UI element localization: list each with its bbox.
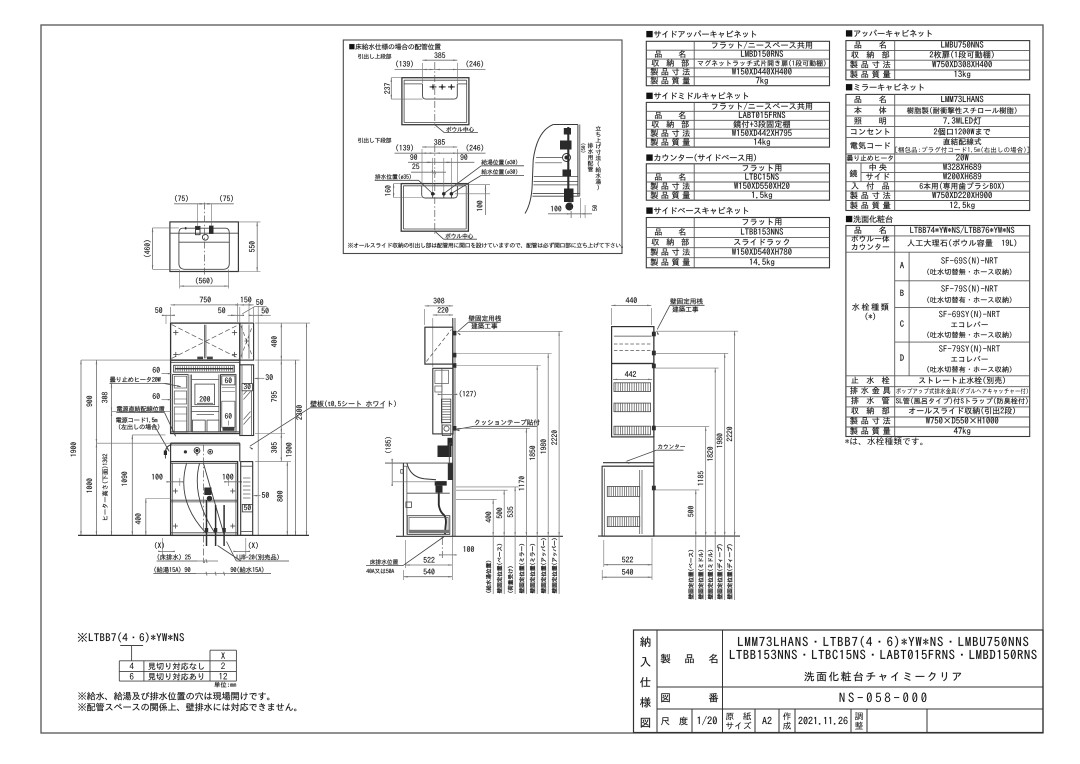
title block 尺度 1/20 [661, 717, 688, 726]
internal pipe curves [184, 464, 206, 533]
middle mirror cabinet side [433, 368, 453, 434]
legend unit note 単位:mm [214, 682, 236, 688]
table サイドアッパーキャビネット [646, 41, 829, 85]
left dim chain 900/1000 [96, 442, 170, 444]
bowl centerline front [203, 445, 205, 564]
section view vertical label 立ち上げ寸法(給水湯) [596, 126, 601, 131]
title block 原紙サイズ A2 [726, 712, 751, 720]
title block product codes line1 [738, 636, 1028, 647]
table サイドミドルキャビネット [646, 102, 829, 147]
lower centerline [434, 145, 436, 235]
section view vertical label 排水用配管 [588, 143, 593, 148]
dim (139)/(246) lower [395, 152, 486, 154]
right dim 2300 [306, 323, 308, 535]
lower cabinet plan rect [401, 184, 468, 232]
middle wall lines [452, 318, 454, 536]
middle dim (185) [391, 459, 393, 486]
table header アッパーキャビネット [846, 30, 932, 37]
label 電源コード1.5m(左出しの場合) [116, 417, 157, 423]
table header 洗面化粧台 [846, 215, 893, 223]
third bottom vertical labels [688, 550, 693, 599]
third dim 442 inside [613, 378, 652, 380]
counter band [171, 442, 240, 444]
faucet hole crosses [430, 86, 437, 88]
section view small dim 50 wall [581, 144, 586, 153]
dims (X) below floor [155, 542, 164, 549]
leader 50 right [262, 492, 269, 498]
table ミラーキャビネット [846, 94, 1030, 210]
label 壁固定用桟 建築工事 third [670, 298, 702, 304]
boxed 50 on side base [242, 504, 252, 512]
label 給湯15A 90 / 90 給水15A [154, 567, 190, 573]
dim 160 [394, 183, 402, 185]
title block product name 洗面化粧台チャイミークリア [804, 671, 961, 681]
note LTBB7 model legend [78, 633, 184, 643]
label 壁固定用桟 建築工事 middle [469, 315, 501, 321]
upper cabinet plan rect [402, 78, 469, 125]
section view shelf lines [536, 157, 562, 159]
plan view bowl back line [179, 241, 229, 243]
third wall line [653, 327, 655, 536]
section view cabinet curve [525, 125, 553, 214]
label 引出し上段部 [358, 54, 391, 59]
label 引出し下段部 [358, 138, 391, 143]
upper cabinet corner marks [173, 332, 178, 334]
label カウンター third [658, 444, 685, 449]
third wall brackets [652, 332, 656, 337]
middle mirror bottom box [442, 425, 451, 436]
top dim row 750/150/50 [170, 307, 172, 322]
side upper cabinet front [240, 323, 254, 360]
mirror cabinet outline [171, 360, 240, 433]
label LUB-20 別売品 [237, 554, 279, 560]
third right dim chain [656, 489, 699, 491]
middle mirror louver strip [441, 399, 450, 423]
dim 385 upper [422, 63, 424, 83]
left dim chain 1090 [132, 434, 165, 436]
title block drawing number NS-058-000 [840, 693, 927, 703]
middle counter and bowl profile [385, 462, 453, 464]
plan view dim 550 [238, 221, 260, 223]
dim 25 lower [411, 171, 446, 173]
middle wall rail brackets upper [453, 331, 457, 336]
piping box bottom note [348, 242, 623, 247]
middle dim 220 [432, 318, 434, 367]
base cabinet drawer divider [171, 499, 238, 501]
label ボウル中心 upper [435, 125, 444, 133]
title block 調整 [855, 713, 863, 721]
third base cabinet side [602, 466, 654, 536]
label ボウル中心 lower [435, 231, 444, 239]
section view wall lines [577, 125, 579, 197]
plan view dim (460) [153, 227, 179, 229]
label 曇り止めヒータ20W [110, 377, 161, 383]
middle drawer box [407, 516, 450, 535]
table アッパーキャビネット [846, 41, 1030, 80]
table header サイドミドルキャビネット [646, 92, 748, 99]
third slide rack comb strips [607, 487, 639, 497]
labels 60 left with leaders [153, 367, 160, 373]
plan view bowl outline [179, 228, 229, 269]
title block 作成 2021.11.26 [783, 712, 791, 720]
table header カウンター(サイドベース用) [646, 154, 756, 162]
title block label 製品名 [661, 654, 671, 663]
label 電源直結配線位置 [117, 406, 165, 412]
table 洗面化粧台 [846, 226, 1030, 437]
label 壁板 t0.5シート ホワイト [310, 400, 396, 406]
title block outline [634, 630, 1044, 733]
plan view backguard line [170, 232, 239, 234]
right dim chain 400/795/305 [255, 322, 310, 324]
label 排水位置(ø35) [375, 174, 411, 179]
table カウンター サイドベース用 [646, 164, 829, 200]
base cabinet outline [171, 462, 238, 536]
drawer corner marks [173, 490, 178, 492]
side middle mirror slashes [244, 387, 251, 395]
upper cabinet front [171, 323, 240, 360]
third dim 440 [610, 308, 612, 325]
piping box title 床給水仕様の場合の配管位置 [349, 43, 441, 49]
title block row lines [657, 686, 1043, 688]
mirror light strip [174, 365, 235, 372]
right dim 800 [286, 462, 288, 536]
left dim chain 308/heater 1362 [112, 382, 171, 384]
dim 385 lower [421, 149, 423, 185]
side middle cabinet mirror panel [240, 365, 254, 436]
third dim 522/540 [603, 540, 605, 567]
label 床排水 25 [158, 554, 191, 560]
mirror center section [191, 375, 193, 432]
upper bowl back outline [404, 83, 422, 85]
backguard knobs [184, 451, 187, 454]
middle dim 522/540 [404, 540, 406, 568]
piping box frame [343, 40, 622, 254]
dim (139)/(246) upper [395, 68, 486, 70]
upper centerline [434, 62, 436, 128]
wall edge line right of cabinets [257, 361, 259, 535]
plan view dim (75)(75) [174, 203, 234, 205]
mirror right door [221, 375, 236, 432]
middle cabinet front and interior [402, 463, 404, 536]
pipe position dots [431, 192, 434, 195]
left dim chain 1900 [81, 359, 171, 361]
plan view counter rect [170, 222, 239, 272]
label 給湯位置(ø30) [481, 159, 517, 164]
plan view dim (560) [179, 269, 181, 288]
label 床排水位置 40A又は50A [370, 559, 398, 564]
middle upper cabinet side [425, 327, 453, 364]
section view dim 100/50 bottom [570, 198, 572, 218]
middle right dim chain [456, 498, 497, 500]
right dim 1900 [295, 360, 297, 535]
floor line [78, 534, 309, 536]
dim 100 lower-right [457, 184, 490, 186]
note 水栓種類 [845, 437, 922, 445]
middle wall rail brackets mirror [453, 363, 457, 368]
middle bottom vertical labels [486, 561, 491, 593]
plan view centerline [204, 203, 206, 277]
note about wall drainage [78, 703, 296, 711]
table header サイドベースキャビネット [646, 207, 748, 214]
note about site drilling [78, 692, 269, 700]
supply drain pipes bottom [206, 500, 208, 546]
legend table for X values [210, 649, 236, 651]
third middle cabinet side [612, 364, 654, 437]
dim 237 [391, 77, 402, 79]
third counter [603, 462, 654, 464]
lower bowl back outline [422, 186, 458, 198]
title block vertical label column 納入仕様図 [656, 630, 658, 733]
title block product codes line2 [730, 650, 1037, 659]
third upper cabinet side [612, 327, 654, 364]
middle drain assembly [435, 481, 447, 486]
mirror bottom rail [171, 431, 240, 433]
upper cabinet X brace [172, 325, 239, 359]
middle dim (127) [438, 393, 457, 395]
section view pipe assembly [567, 127, 569, 197]
label クッションテープ貼付 [475, 419, 540, 425]
label 給水位置(ø30) [481, 169, 517, 174]
dim 90 90 lower [408, 161, 474, 163]
dim row 50 50 50 [165, 315, 167, 324]
side base cabinet [241, 462, 253, 536]
leader 30 right [266, 374, 273, 380]
third floor line [598, 535, 740, 537]
legend connector lines [120, 645, 143, 647]
mirror left door [173, 375, 189, 432]
left dim chain 400 [146, 498, 171, 500]
middle dim 100 [441, 538, 443, 559]
third shelf comb strips [614, 383, 651, 392]
table header ミラーキャビネット [846, 84, 924, 91]
boxed 30 on side panel [242, 384, 252, 391]
title block label 図番 [661, 693, 669, 702]
middle floor line [396, 535, 563, 537]
table header サイドアッパーキャビネット [646, 30, 756, 37]
dims 100 100 inside base [167, 481, 184, 483]
middle faucet and valve assembly [438, 446, 452, 458]
power cord at left [166, 445, 172, 451]
upper cabinet door handles [197, 357, 203, 360]
plan view faucet symbols [196, 226, 201, 234]
middle backguard [448, 443, 450, 463]
middle dim 308 [424, 309, 426, 325]
title block bottom row cells [691, 709, 693, 733]
table サイドベースキャビネット [646, 218, 829, 268]
pipe valve boxes [204, 488, 211, 496]
mirror 200 dim [200, 396, 210, 401]
